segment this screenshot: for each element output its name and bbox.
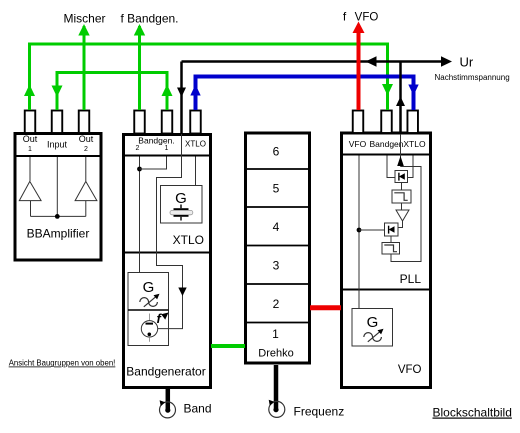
svg-text:G: G — [367, 314, 379, 331]
pin Input of BBAmplifier — [52, 111, 63, 134]
connector Band — [160, 389, 176, 418]
wire VFO pin to G box — [358, 156, 360, 309]
svg-text:Frequenz: Frequenz — [294, 405, 345, 419]
wire pin1 join — [140, 157, 167, 170]
wire Input vertical — [56, 157, 58, 216]
arrow up black at VFO — [396, 97, 405, 107]
arrow up green f Bandgen — [134, 24, 145, 36]
svg-text:4: 4 — [273, 220, 280, 234]
junction dot pin1-pin2 — [137, 167, 142, 172]
wire Ur inside bandgenerator — [157, 134, 183, 329]
svg-text:Ur: Ur — [460, 55, 474, 70]
svg-text:VFO: VFO — [398, 364, 422, 376]
svg-text:Out: Out — [23, 134, 38, 144]
wire Out2 to amp A2 — [85, 157, 87, 181]
svg-text:G: G — [143, 279, 155, 296]
varactor circle f — [141, 314, 157, 342]
svg-text:1: 1 — [28, 146, 32, 153]
arrow down blue at VFO XTLO pin — [408, 85, 418, 96]
sine symbol VFO G — [364, 329, 384, 342]
phase detector PD2 box — [385, 223, 399, 236]
phase detector PD2 diode symbol — [389, 226, 395, 234]
wire shaper1 to amp — [401, 203, 403, 210]
svg-text:Bandgen: Bandgen — [369, 139, 403, 149]
svg-text:Out: Out — [79, 134, 94, 144]
arrow right black Ur — [441, 56, 452, 66]
crystal X1 — [170, 205, 193, 221]
svg-text:BBAmplifier: BBAmplifier — [27, 227, 90, 241]
arrow down green at VFO Bandgen pin — [382, 84, 393, 96]
svg-text:Nachstimmspannung: Nachstimmspannung — [435, 73, 510, 82]
pin VFO of VFO block — [353, 111, 364, 134]
svg-text:Ansicht Baugruppen von oben!: Ansicht Baugruppen von oben! — [9, 359, 116, 368]
block VFO/PLL U3 — [342, 133, 431, 388]
amplifier A1 — [19, 181, 41, 200]
wire black Ur horizontal — [182, 60, 445, 63]
svg-text:1: 1 — [272, 327, 279, 341]
svg-text:3: 3 — [273, 259, 280, 273]
svg-text:Band: Band — [184, 402, 212, 416]
svg-text:XTLO: XTLO — [173, 233, 204, 247]
wire pin2 down to generator — [139, 157, 141, 273]
wire XTLO pin to crystal box — [195, 157, 197, 186]
arrow up green Mischer — [78, 24, 89, 36]
pin XTLO of VFO block — [407, 111, 418, 134]
svg-text:f Bandgen.: f Bandgen. — [120, 11, 178, 25]
mixer M1 box — [395, 171, 408, 183]
arrow up blue at Bandgen XTLO pin — [190, 85, 200, 96]
svg-text:VFO: VFO — [349, 139, 367, 149]
svg-text:Bandgen.: Bandgen. — [138, 136, 174, 146]
wire black Ur branch to VFO — [399, 62, 402, 135]
svg-text:XTLO: XTLO — [403, 139, 426, 149]
amplifier A2 — [75, 181, 97, 200]
wire black Ur down to Bandgenerator — [180, 62, 183, 135]
arrow down green at Input — [52, 86, 63, 98]
svg-text:VFO: VFO — [355, 12, 379, 24]
wire PD2 to shaper2 — [390, 236, 392, 243]
wire green Input to Bandgen pin1 — [57, 73, 167, 111]
generator box G bandgen — [128, 273, 169, 346]
pin 1 of Bandgenerator — [162, 111, 173, 134]
divider Drehko 2/1 — [246, 322, 310, 324]
shaper F1 box — [392, 190, 411, 203]
wire shaper2 feedback to Ur — [391, 167, 421, 262]
pin XTLO of Bandgenerator — [190, 111, 201, 134]
wire green Out2 to Mischer — [83, 26, 86, 110]
svg-text:2: 2 — [273, 297, 280, 311]
pin Bandgen of VFO block — [381, 111, 392, 134]
wire green Out1 to VFO Bandgen pin — [30, 44, 388, 110]
arrow up green at Bandgen pin1 — [162, 85, 173, 97]
wire blue XTLO link — [196, 77, 414, 111]
svg-text:1: 1 — [165, 145, 169, 152]
pin label Out 2 — [79, 134, 94, 153]
svg-text:2: 2 — [84, 146, 88, 153]
connector Frequenz — [269, 365, 285, 417]
wire Ur vertical inside VFO — [400, 134, 402, 167]
divider generator box — [128, 309, 169, 311]
pin label Out 1 — [23, 134, 38, 153]
block Drehko (variable capacitor bank) — [246, 133, 310, 363]
arrow down on Ur wire — [178, 288, 186, 297]
svg-text:5: 5 — [273, 182, 280, 196]
wire red f VFO — [357, 31, 361, 110]
svg-text:XTLO: XTLO — [185, 140, 206, 149]
arrow up red f VFO — [353, 22, 365, 34]
wire amp A2 base down — [85, 201, 87, 217]
arrow down black at Bandgenerator — [177, 88, 186, 98]
svg-text:Blockschaltbild: Blockschaltbild — [433, 406, 512, 420]
svg-text:Bandgenerator: Bandgenerator — [126, 365, 205, 379]
wire Bandgen pin to mixer 1 — [387, 156, 395, 178]
svg-text:Input: Input — [47, 140, 68, 150]
wire XTLO pin to mixer 1 — [408, 156, 414, 178]
wire amp A1 base down — [30, 201, 32, 217]
sine symbol bandgen G — [140, 294, 160, 307]
arrow up on Ur inside VFO — [397, 156, 404, 166]
junction dot VFO line — [357, 228, 362, 233]
VFO generator box G — [352, 309, 393, 347]
shaper F2 step symbol — [384, 245, 397, 252]
shaper F1 step symbol — [394, 193, 407, 201]
wire input bus horizontal — [31, 215, 86, 217]
junction dot input bus — [55, 214, 60, 219]
wire red Drehko to VFO — [310, 305, 341, 310]
divider Drehko 6/5 — [246, 168, 310, 170]
crystal oscillator box XTLO — [161, 186, 203, 224]
wire mixer1 to shaper1 — [401, 183, 403, 191]
svg-text:2: 2 — [136, 145, 140, 152]
pin 2 of Bandgenerator — [134, 111, 145, 134]
pin Out1 of BBAmplifier — [25, 111, 36, 134]
svg-text:Drehko: Drehko — [258, 348, 293, 360]
block BBAmplifier U1 — [15, 134, 101, 261]
wire junction to phase detector 2 — [359, 229, 385, 231]
svg-text:6: 6 — [273, 145, 280, 159]
divider Drehko 4/3 — [246, 245, 310, 247]
block Bandgenerator U2 — [124, 135, 211, 388]
divider Drehko 5/4 — [246, 206, 310, 208]
wire Out1 to amp A1 — [29, 157, 31, 181]
wire green Bandgen pin2 to f Bandgen — [138, 26, 141, 110]
svg-text:PLL: PLL — [400, 272, 422, 286]
amplifier A3 — [396, 210, 409, 221]
mixer M1 diode symbol — [399, 173, 405, 181]
wire green Bandgenerator to Drehko — [211, 344, 245, 348]
arrow up green at Out1 — [24, 85, 35, 97]
wire amp to phase detector 2 — [398, 221, 403, 228]
arrow left black on Ur line — [366, 56, 377, 66]
divider Drehko 3/2 — [246, 283, 310, 285]
svg-text:Mischer: Mischer — [63, 11, 105, 25]
svg-text:G: G — [175, 190, 187, 207]
pin Out2 of BBAmplifier — [79, 111, 90, 134]
arrow on f label — [161, 313, 168, 320]
shaper F2 box — [382, 243, 400, 255]
